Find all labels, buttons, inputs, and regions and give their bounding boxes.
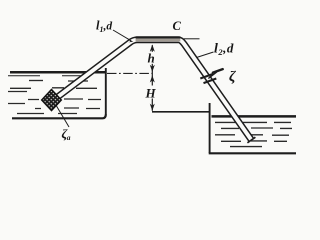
label H [145, 86, 159, 101]
left tank right wall [105, 68, 107, 115]
short tick right of pipe end [184, 38, 200, 40]
siphon pipe: outer stroke then white core (l1 rise, top run, l2 fall) [53, 40, 252, 140]
svg-text:C: C [173, 19, 182, 33]
svg-text:l1,d: l1,d [96, 19, 112, 35]
label h [146, 50, 156, 65]
lower level line [152, 111, 209, 113]
svg-text:H: H [145, 86, 157, 101]
arrow up from below upper level [150, 75, 155, 82]
strainer (mesh diamond) [42, 90, 62, 111]
leader for l1,d with arrowhead [113, 30, 131, 41]
strainer leader line [55, 104, 69, 128]
right tank water dashes [215, 122, 292, 146]
upper level dash-dot line [107, 72, 152, 74]
left tank water dashes [8, 81, 101, 114]
valve ticks [200, 74, 216, 83]
arrow down to upper level [150, 65, 155, 72]
svg-text:h: h [148, 50, 155, 65]
top pipe thick ink + gray band [136, 36, 181, 38]
leader for l2,d [197, 52, 214, 58]
left tank bottom [12, 115, 106, 119]
right tank left wall [209, 103, 211, 153]
arrow up to pipe bottom [150, 44, 155, 51]
right tank bottom [209, 152, 296, 154]
left tank water surface line [8, 72, 106, 76]
svg-text:l2,d: l2,d [214, 41, 234, 58]
pipe end cap [247, 137, 255, 143]
arrow down to lower level [150, 104, 155, 111]
paper background [0, 0, 313, 166]
valve stem [208, 72, 217, 79]
dimension vertical line [151, 45, 153, 111]
valve T handle [213, 69, 223, 73]
right tank water surface [212, 115, 297, 118]
